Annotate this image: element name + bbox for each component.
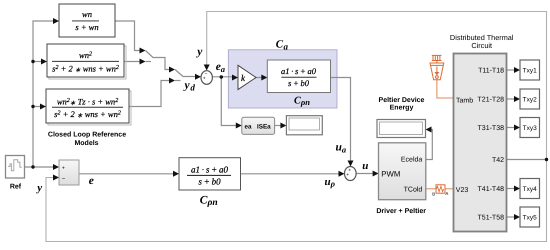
svg-text:Circuit: Circuit [471,41,492,50]
svg-text:Energy: Energy [390,104,414,111]
svg-text:Txy1: Txy1 [523,67,537,74]
svg-text:Tamb: Tamb [456,96,473,104]
svg-text:TCold: TCold [404,186,423,194]
svg-text:−: − [205,71,208,77]
svg-text:T51-T58: T51-T58 [478,215,505,222]
svg-text:T41-T48: T41-T48 [478,186,505,193]
svg-text:ISEa: ISEa [257,123,271,130]
svg-text:Txy5: Txy5 [523,214,537,221]
svg-text:Models: Models [74,139,98,147]
svg-text:yd: yd [183,79,196,92]
svg-text:a1 · s + a0: a1 · s + a0 [191,164,229,174]
svg-text:ea: ea [216,61,226,74]
svg-text:uρ: uρ [325,176,336,189]
svg-text:Txy3: Txy3 [523,125,537,132]
svg-text:A: A [445,191,448,196]
svg-text:ea: ea [245,123,253,130]
svg-text:Closed Loop Reference: Closed Loop Reference [48,131,126,139]
svg-text:+: + [346,173,349,178]
svg-text:u: u [362,160,368,172]
svg-text:−: − [62,176,66,182]
svg-text:Cρn: Cρn [200,194,218,208]
svg-text:s2 + 2 ∗ wns + wn2: s2 + 2 ∗ wns + wn2 [54,109,121,119]
svg-text:PWM: PWM [381,170,400,179]
svg-text:V23: V23 [456,187,469,194]
svg-text:T21-T28: T21-T28 [478,97,505,104]
svg-text:wn2∗ Tz · s + wn2: wn2∗ Tz · s + wn2 [57,97,118,107]
svg-text:e: e [89,175,94,187]
svg-text:y: y [195,46,203,58]
svg-text:Cρn: Cρn [294,95,310,107]
svg-text:Driver + Peltier: Driver + Peltier [376,207,426,215]
svg-text:Ca: Ca [276,39,289,52]
svg-text:s + b0: s + b0 [198,177,221,187]
svg-text:s2 + 2 ∗ wns + wn2: s2 + 2 ∗ wns + wn2 [52,64,119,74]
svg-text:B: B [432,191,435,196]
svg-text:Txy2: Txy2 [523,96,537,103]
svg-text:T42: T42 [492,157,504,164]
svg-text:wn: wn [82,9,92,19]
svg-text:Ref: Ref [10,183,22,191]
svg-text:ua: ua [336,142,347,155]
svg-text:+: + [62,165,65,171]
svg-text:a1 · s + a0: a1 · s + a0 [281,66,317,76]
svg-text:s + wn: s + wn [75,22,98,32]
svg-text:s + b0: s + b0 [288,78,310,88]
svg-text:+: + [203,77,206,82]
svg-text:T11-T18: T11-T18 [478,68,504,75]
svg-text:y: y [35,182,42,194]
svg-text:Peltier Device: Peltier Device [379,96,425,104]
svg-text:T31-T38: T31-T38 [478,125,505,132]
svg-text:Ecelda: Ecelda [401,155,423,163]
svg-text:Txy4: Txy4 [523,186,537,193]
svg-text:+: + [348,168,351,173]
